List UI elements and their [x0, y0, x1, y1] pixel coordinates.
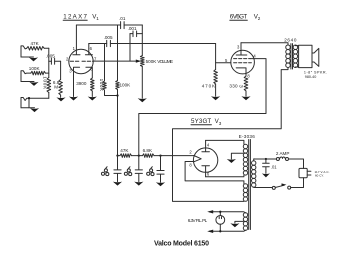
capacitor .005 (input): [49, 60, 61, 62]
wire plate1 to .01: [76, 24, 120, 26]
wire V3 pin8 to 5V winding: [185, 162, 244, 184]
svg-text:980-40: 980-40: [305, 75, 317, 79]
svg-text:100K: 100K: [43, 76, 48, 90]
svg-text:6.3V FIL. PL: 6.3V FIL. PL: [188, 218, 208, 223]
V1 grid pin 7 (dashed): [82, 60, 93, 62]
plate load 100K (left, V1b): [104, 44, 106, 82]
V1 plate pin 1: [73, 25, 80, 55]
V1 grid pin 2 (dashed): [70, 60, 80, 62]
resistor 470K grid leak: [215, 63, 217, 70]
wire J3 tip to ground bus: [28, 98, 30, 108]
svg-text:Valco Model 6150: Valco Model 6150: [154, 240, 209, 247]
PT primary bottom to switch: [254, 186, 273, 188]
resistor 330 ohm cathode: [244, 76, 248, 91]
junction node A: [116, 154, 118, 156]
output transformer core: [291, 44, 293, 69]
wire 6.3V top to heaters: [210, 211, 246, 214]
speaker: [295, 46, 298, 67]
line bypass cap .01: [265, 158, 267, 160]
V1 cathode pin 3: [74, 67, 80, 96]
V1 cathode pin 8 + resistor 3900: [86, 67, 92, 78]
wire 6.3V bottom to heaters: [210, 230, 246, 231]
electrolytic section mark: [106, 167, 108, 169]
capacitor .005 (coupling to V2): [89, 43, 216, 45]
V1 plate pin 6: [85, 44, 92, 55]
ground jack J1: [21, 56, 34, 58]
tube 5Y3GT V3 envelope: [193, 148, 217, 172]
resistor 100K: [31, 71, 46, 75]
wire B+ rail to V3 filament: [154, 155, 194, 157]
svg-text:.001: .001: [128, 26, 137, 31]
V2 screen wire to B+: [139, 59, 266, 156]
filter cap A: [114, 156, 121, 182]
OT primary bottom to B+: [173, 68, 289, 202]
svg-text:M: M: [54, 84, 58, 89]
junction plate loads: [116, 94, 118, 96]
svg-text:2640: 2640: [284, 38, 297, 43]
wire .001 to wiper line: [129, 34, 131, 62]
svg-text:60 CY.: 60 CY.: [315, 173, 324, 177]
resistor 6.8K (filter): [143, 154, 155, 158]
svg-text:3: 3: [219, 121, 222, 126]
wire grid7 / wiper: [93, 60, 139, 62]
tube 6V6GT V2 envelope: [231, 50, 255, 74]
PT core: [249, 140, 251, 230]
V2 cathode pin 8: [236, 68, 246, 76]
V2 grid wire from volume network: [216, 44, 231, 63]
fuse 2 AMP: [276, 158, 279, 161]
V3 filament: [194, 156, 202, 162]
V3 plate pin 4: [202, 140, 210, 151]
svg-text:100K: 100K: [29, 66, 41, 71]
output transformer primary: [286, 45, 291, 50]
svg-text:3900: 3900: [76, 81, 87, 86]
svg-text:1-8″ SPKR.: 1-8″ SPKR.: [304, 71, 327, 75]
PT HV secondary winding: [243, 144, 247, 148]
input jack J2: [21, 71, 31, 82]
svg-text:100K: 100K: [120, 83, 132, 88]
volume pot 500K: [141, 25, 143, 56]
resistor 47K (filter): [120, 154, 132, 158]
input jack J1: [21, 46, 27, 57]
V2 screen pin 4 (dashed): [234, 58, 251, 60]
wire V3 pin4 to HV winding: [206, 140, 244, 144]
pilot lamp: [216, 216, 225, 225]
PT primary winding: [252, 161, 256, 165]
svg-text:.005: .005: [46, 54, 55, 59]
svg-text:2: 2: [258, 16, 261, 21]
wire B+ rail segment: [132, 155, 143, 157]
filter cap C: [157, 156, 164, 183]
electrolytic section mark: [151, 167, 153, 169]
V2 grid pin 5 (dashed): [234, 62, 252, 64]
svg-text:5Y3GT: 5Y3GT: [191, 118, 211, 125]
svg-text:.005: .005: [104, 35, 113, 40]
svg-text:47K: 47K: [31, 41, 40, 46]
svg-text:2 AMP: 2 AMP: [276, 151, 290, 156]
svg-text:E-3036: E-3036: [239, 134, 256, 139]
PT primary top to fuse: [254, 159, 277, 161]
B+ riser / plate load 100K (right): [117, 25, 119, 81]
output transformer secondary: [293, 45, 298, 50]
resistor 47K: [27, 47, 45, 51]
ground jack J2: [21, 81, 34, 83]
svg-text:6V6GT: 6V6GT: [230, 14, 248, 21]
wire V3 pin6 to HV winding: [206, 175, 244, 176]
svg-text:6.8K: 6.8K: [143, 148, 153, 153]
AC plug: [299, 168, 307, 177]
filter cap B: [135, 156, 142, 182]
PT 6.3V winding: [243, 213, 247, 217]
capacitor .01: [121, 22, 125, 29]
grid leak 6.8M: [60, 61, 62, 79]
B+ rail: [118, 155, 121, 157]
tube 12AX7 V1 envelope: [69, 49, 93, 73]
svg-text:100K: 100K: [99, 79, 104, 92]
junction node C: [159, 154, 161, 156]
svg-text:330 ω: 330 ω: [229, 84, 243, 89]
6.3V winding ground tap: [235, 221, 244, 223]
electrolytic section mark: [129, 167, 131, 169]
V2 plate pin 3: [236, 43, 247, 55]
PT 5V winding: [243, 184, 247, 188]
input jack J3: [21, 98, 49, 108]
svg-text:47K: 47K: [120, 148, 129, 153]
svg-text:.01: .01: [119, 16, 126, 21]
junction node B: [138, 154, 140, 156]
power switch: [272, 186, 275, 189]
PT HV center tap to ground: [231, 153, 243, 159]
capacitor .001: [133, 31, 137, 37]
V3 plate pin 6: [202, 166, 210, 177]
svg-text:470K: 470K: [202, 84, 216, 89]
svg-text:VOLUME: VOLUME: [157, 59, 173, 64]
ground jack J3: [21, 107, 35, 109]
wire V2 plate to OT: [241, 43, 288, 45]
node line / grid resistor 100K vertical: [48, 48, 50, 77]
svg-text:1: 1: [96, 16, 99, 21]
svg-text:.01: .01: [271, 165, 277, 170]
svg-text:500K: 500K: [146, 59, 158, 64]
